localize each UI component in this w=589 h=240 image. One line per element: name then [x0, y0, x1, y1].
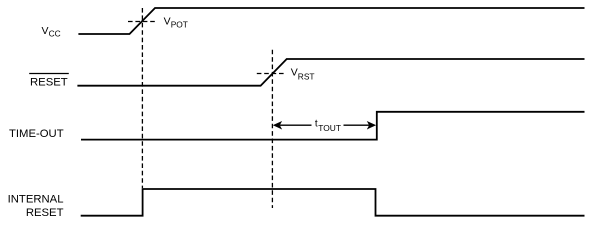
svg-text:RST: RST	[298, 72, 315, 82]
VPOT threshold dashed marker	[128, 21, 158, 23]
svg-text:POT: POT	[171, 20, 188, 30]
dashed vertical line 2 (RESET RST crossing)	[271, 50, 273, 208]
wire VCC waveform (low, ramp, high)	[78, 8, 584, 34]
dashed vertical line 1 (VCC POT crossing)	[141, 8, 143, 188]
wire RESET waveform (low, ramp, high)	[77, 59, 584, 86]
label VRST	[291, 67, 315, 82]
svg-text:V: V	[42, 25, 49, 37]
VRST threshold dashed marker	[257, 73, 284, 75]
svg-text:CC: CC	[49, 29, 61, 39]
label VPOT	[164, 15, 188, 29]
svg-text:TIME-OUT: TIME-OUT	[9, 128, 64, 140]
label RESET (overlined)	[29, 74, 69, 89]
dimension arrow tTOUT (left head)	[274, 122, 312, 129]
svg-text:TOUT: TOUT	[318, 123, 341, 133]
svg-text:V: V	[164, 15, 171, 27]
svg-text:V: V	[291, 67, 298, 79]
label VCC	[42, 25, 61, 38]
wire INTERNAL RESET waveform (low, pulse high, low)	[81, 189, 585, 216]
svg-text:RESET: RESET	[26, 207, 64, 219]
wire TIME-OUT waveform (low, rising edge, high)	[81, 112, 585, 140]
svg-text:INTERNAL: INTERNAL	[8, 194, 64, 206]
label INTERNAL RESET	[8, 194, 64, 219]
dimension arrow tTOUT (right head)	[344, 122, 376, 129]
svg-text:RESET: RESET	[30, 76, 68, 88]
label tTOUT	[315, 119, 341, 133]
